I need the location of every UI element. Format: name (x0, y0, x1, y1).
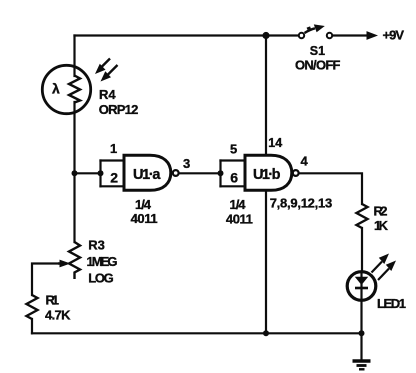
photoresistor R4 body (42, 65, 90, 113)
wire R2 to LED (361, 228, 363, 272)
resistor R2 zigzag (357, 204, 368, 228)
wire pins 7,8,9,12,13 to bottom rail (265, 190, 267, 333)
op-amp U1-b input box (221, 161, 246, 187)
wire pin14 from top rail (265, 36, 267, 156)
photoresistor light arrow upper (95, 59, 110, 75)
wire LED through to bottom rail (360, 272, 362, 333)
svg-text:LED1: LED1 (377, 296, 406, 311)
svg-text:LOG: LOG (88, 270, 114, 285)
op-amp U1-a output bubble (173, 170, 179, 176)
svg-text:6: 6 (230, 170, 238, 186)
svg-text:R3: R3 (88, 237, 105, 252)
svg-text:7,8,9,12,13: 7,8,9,12,13 (270, 196, 333, 211)
svg-text:ON/OFF: ON/OFF (295, 58, 341, 73)
ground symbol (353, 333, 371, 369)
svg-text:U1·b: U1·b (253, 167, 281, 183)
svg-text:1: 1 (110, 141, 117, 156)
node C junction U1-a input (98, 170, 104, 176)
svg-text:4011: 4011 (131, 211, 158, 226)
wire bottom rail (32, 332, 362, 334)
svg-text:+9V: +9V (383, 28, 405, 43)
svg-text:ORP12: ORP12 (99, 102, 139, 117)
svg-text:4011: 4011 (226, 212, 253, 227)
node B junction left vertical (72, 170, 78, 176)
op-amp U1-a gate body (124, 155, 171, 190)
op-amp U1-a input box (101, 161, 125, 187)
svg-text:R2: R2 (374, 204, 388, 219)
svg-text:3: 3 (183, 156, 190, 171)
wire U1-a output to U1-b input (180, 172, 221, 174)
svg-text:R4: R4 (99, 87, 116, 102)
svg-text:R1: R1 (46, 292, 60, 307)
wire U1-b output to R2 (300, 173, 363, 204)
wire U1-a input feed (75, 172, 101, 174)
resistor R1 zigzag (27, 295, 38, 319)
op-amp U1-b gate body (245, 155, 292, 190)
svg-text:S1: S1 (310, 44, 325, 58)
op-amp U1-b output bubble (293, 170, 299, 176)
node D junction U1-b input (218, 170, 224, 176)
wire left vertical (LDR branch) (73, 36, 75, 77)
switch S1 pole 2 (327, 33, 332, 38)
node A junction top rail (262, 32, 269, 39)
node E junction bottom rail (263, 330, 269, 336)
wire R1 to bottom rail (31, 319, 33, 333)
wire R3 wiper to R1 (32, 264, 60, 296)
LED1 light arrow upper (372, 254, 390, 273)
+9V supply arrow (367, 31, 379, 40)
svg-text:1/4: 1/4 (230, 197, 247, 212)
wire +9V segment (334, 34, 369, 36)
svg-text:1/4: 1/4 (135, 197, 152, 212)
svg-text:4.7K: 4.7K (45, 307, 71, 322)
svg-text:U1·a: U1·a (133, 167, 161, 183)
svg-text:14: 14 (268, 136, 282, 150)
LED1 triangle (355, 277, 368, 285)
LED1 light arrow lower (378, 261, 396, 281)
potentiometer R3 zigzag (69, 242, 80, 279)
svg-text:1K: 1K (374, 218, 389, 233)
svg-text:1MEG: 1MEG (87, 254, 118, 269)
node F junction bottom right (359, 330, 365, 336)
switch S1 pole 1 (299, 33, 304, 38)
wire top rail (75, 34, 299, 36)
LED1 cathode bar (355, 287, 368, 290)
photoresistor light arrow lower (101, 65, 118, 82)
photoresistor R4 zigzag (69, 76, 80, 103)
switch S1 arm (305, 24, 325, 33)
potentiometer R3 wiper arrow (58, 260, 71, 268)
svg-text:2: 2 (110, 170, 118, 186)
svg-text:5: 5 (230, 142, 237, 157)
svg-text:4: 4 (301, 154, 309, 169)
svg-text:λ: λ (52, 81, 60, 97)
LED1 body circle (347, 272, 376, 301)
